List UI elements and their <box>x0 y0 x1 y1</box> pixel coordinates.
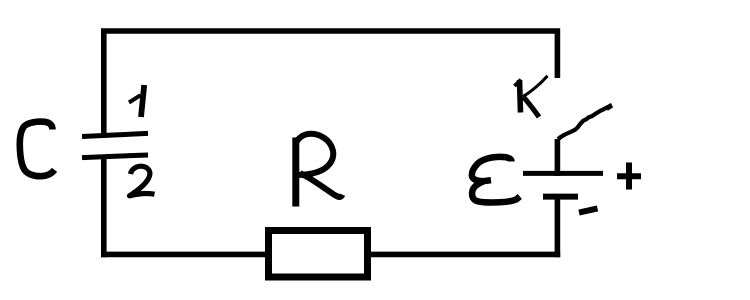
label: + (positive terminal sign) <box>617 163 641 190</box>
capacitor C plate 1 (top plate) <box>82 133 148 136</box>
wire: right upper (top wire down to switch K contact) <box>555 29 561 79</box>
label: - (negative terminal sign) <box>579 208 598 212</box>
label: C (capacitor designator) <box>20 122 55 177</box>
capacitor C plate 2 (bottom plate) <box>82 155 148 158</box>
battery: long plate (positive terminal) <box>523 171 603 176</box>
label: pin 1 (top plate) <box>129 85 144 117</box>
wire: left lower (capacitor plate 2 down to bottom wire) <box>101 156 107 257</box>
label: K (switch designator) <box>515 76 548 117</box>
wire: left upper (top wire down to capacitor plate 1) <box>101 29 107 136</box>
resistor R body (rectangle) <box>269 231 368 278</box>
label: pin 2 (bottom plate) <box>130 166 155 196</box>
label: EMF epsilon (battery designator) <box>472 157 520 203</box>
wire: bottom left (left wire to resistor R) <box>101 252 267 258</box>
wire: switch blade lower end down to battery positive plate <box>555 139 561 176</box>
wire: right lower (battery negative plate down to bottom wire) <box>555 197 561 257</box>
wire: top (node between C plate 1 and switch K) <box>101 28 560 34</box>
battery: short plate (negative terminal) <box>543 194 578 200</box>
wire: bottom right (resistor R to right wire) <box>369 252 560 258</box>
label: R (resistor designator) <box>296 134 343 207</box>
switch K blade (open, diagonal) <box>558 105 612 139</box>
